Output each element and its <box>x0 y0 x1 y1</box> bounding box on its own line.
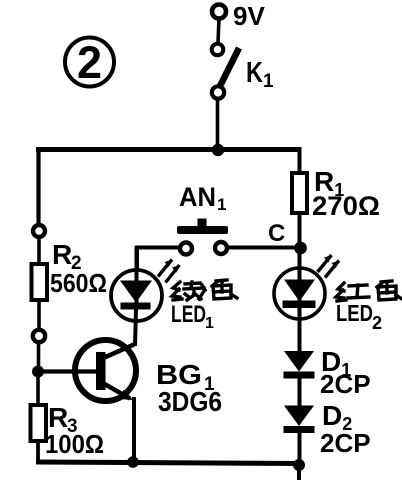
wire <box>36 373 40 406</box>
wire emitter to bottom rail <box>132 397 136 463</box>
wire <box>298 250 302 270</box>
svg-text:AN: AN <box>179 182 216 212</box>
diode D1 <box>284 351 315 379</box>
label R1 270 ohm <box>312 166 380 221</box>
label D2 2CP <box>320 400 371 458</box>
wire D1 to D2 <box>298 378 302 407</box>
resistor R3 <box>31 405 47 441</box>
pushbutton AN1 <box>177 219 228 255</box>
svg-text:LED: LED <box>336 300 373 326</box>
wire base <box>38 369 98 373</box>
figure number 2 <box>65 37 114 88</box>
label R2 560 ohm <box>50 239 107 298</box>
terminal <box>33 330 45 342</box>
wire right rail top <box>298 147 302 174</box>
svg-text:1: 1 <box>205 315 214 332</box>
label R3 100 ohm <box>45 402 104 459</box>
label green color <box>172 280 237 300</box>
label BG1 3DG6 <box>156 359 222 417</box>
wire LED2 to D1 <box>298 308 302 353</box>
junction <box>293 459 305 471</box>
wire top rail <box>36 147 301 152</box>
wire button left to LED1 <box>137 248 180 273</box>
junction node C <box>294 242 307 255</box>
wire <box>216 99 220 150</box>
svg-text:1: 1 <box>263 71 274 92</box>
diode D2 <box>284 406 315 434</box>
wire button right to node C <box>227 246 297 250</box>
wire LED1 cathode to collector <box>135 309 136 346</box>
svg-text:LED: LED <box>171 301 206 328</box>
resistor R1 <box>292 173 307 213</box>
svg-text:2: 2 <box>77 37 102 88</box>
wire left rail upper <box>36 147 40 225</box>
battery terminal 9V <box>212 5 226 19</box>
wire <box>218 18 219 43</box>
svg-text:C: C <box>268 220 285 247</box>
svg-text:2: 2 <box>372 313 382 333</box>
LED LED2 red <box>274 255 339 319</box>
wire bottom rail <box>36 462 300 464</box>
wire <box>37 300 41 330</box>
svg-text:560Ω: 560Ω <box>50 268 107 298</box>
wire <box>36 441 40 464</box>
label D1 2CP <box>320 346 371 399</box>
junction <box>127 456 139 468</box>
wire <box>37 342 41 368</box>
LED LED1 green <box>111 246 180 321</box>
svg-text:270Ω: 270Ω <box>312 191 380 221</box>
switch K1 <box>212 44 239 99</box>
wire stub <box>297 466 301 480</box>
wire <box>37 237 41 265</box>
resistor R2 <box>32 264 48 300</box>
svg-text:100Ω: 100Ω <box>45 429 104 459</box>
junction <box>212 144 224 156</box>
svg-text:2CP: 2CP <box>320 369 371 399</box>
svg-text:9V: 9V <box>233 1 265 31</box>
transistor BG1 <box>75 340 136 401</box>
terminal <box>33 225 45 237</box>
junction <box>32 366 44 378</box>
svg-text:R: R <box>52 239 72 270</box>
wire D2 to bottom rail <box>298 433 302 464</box>
svg-text:K: K <box>246 57 263 89</box>
svg-text:3DG6: 3DG6 <box>158 386 222 417</box>
svg-text:2CP: 2CP <box>320 428 371 458</box>
label red color <box>336 281 402 301</box>
svg-text:1: 1 <box>217 195 226 214</box>
wire <box>298 213 302 244</box>
